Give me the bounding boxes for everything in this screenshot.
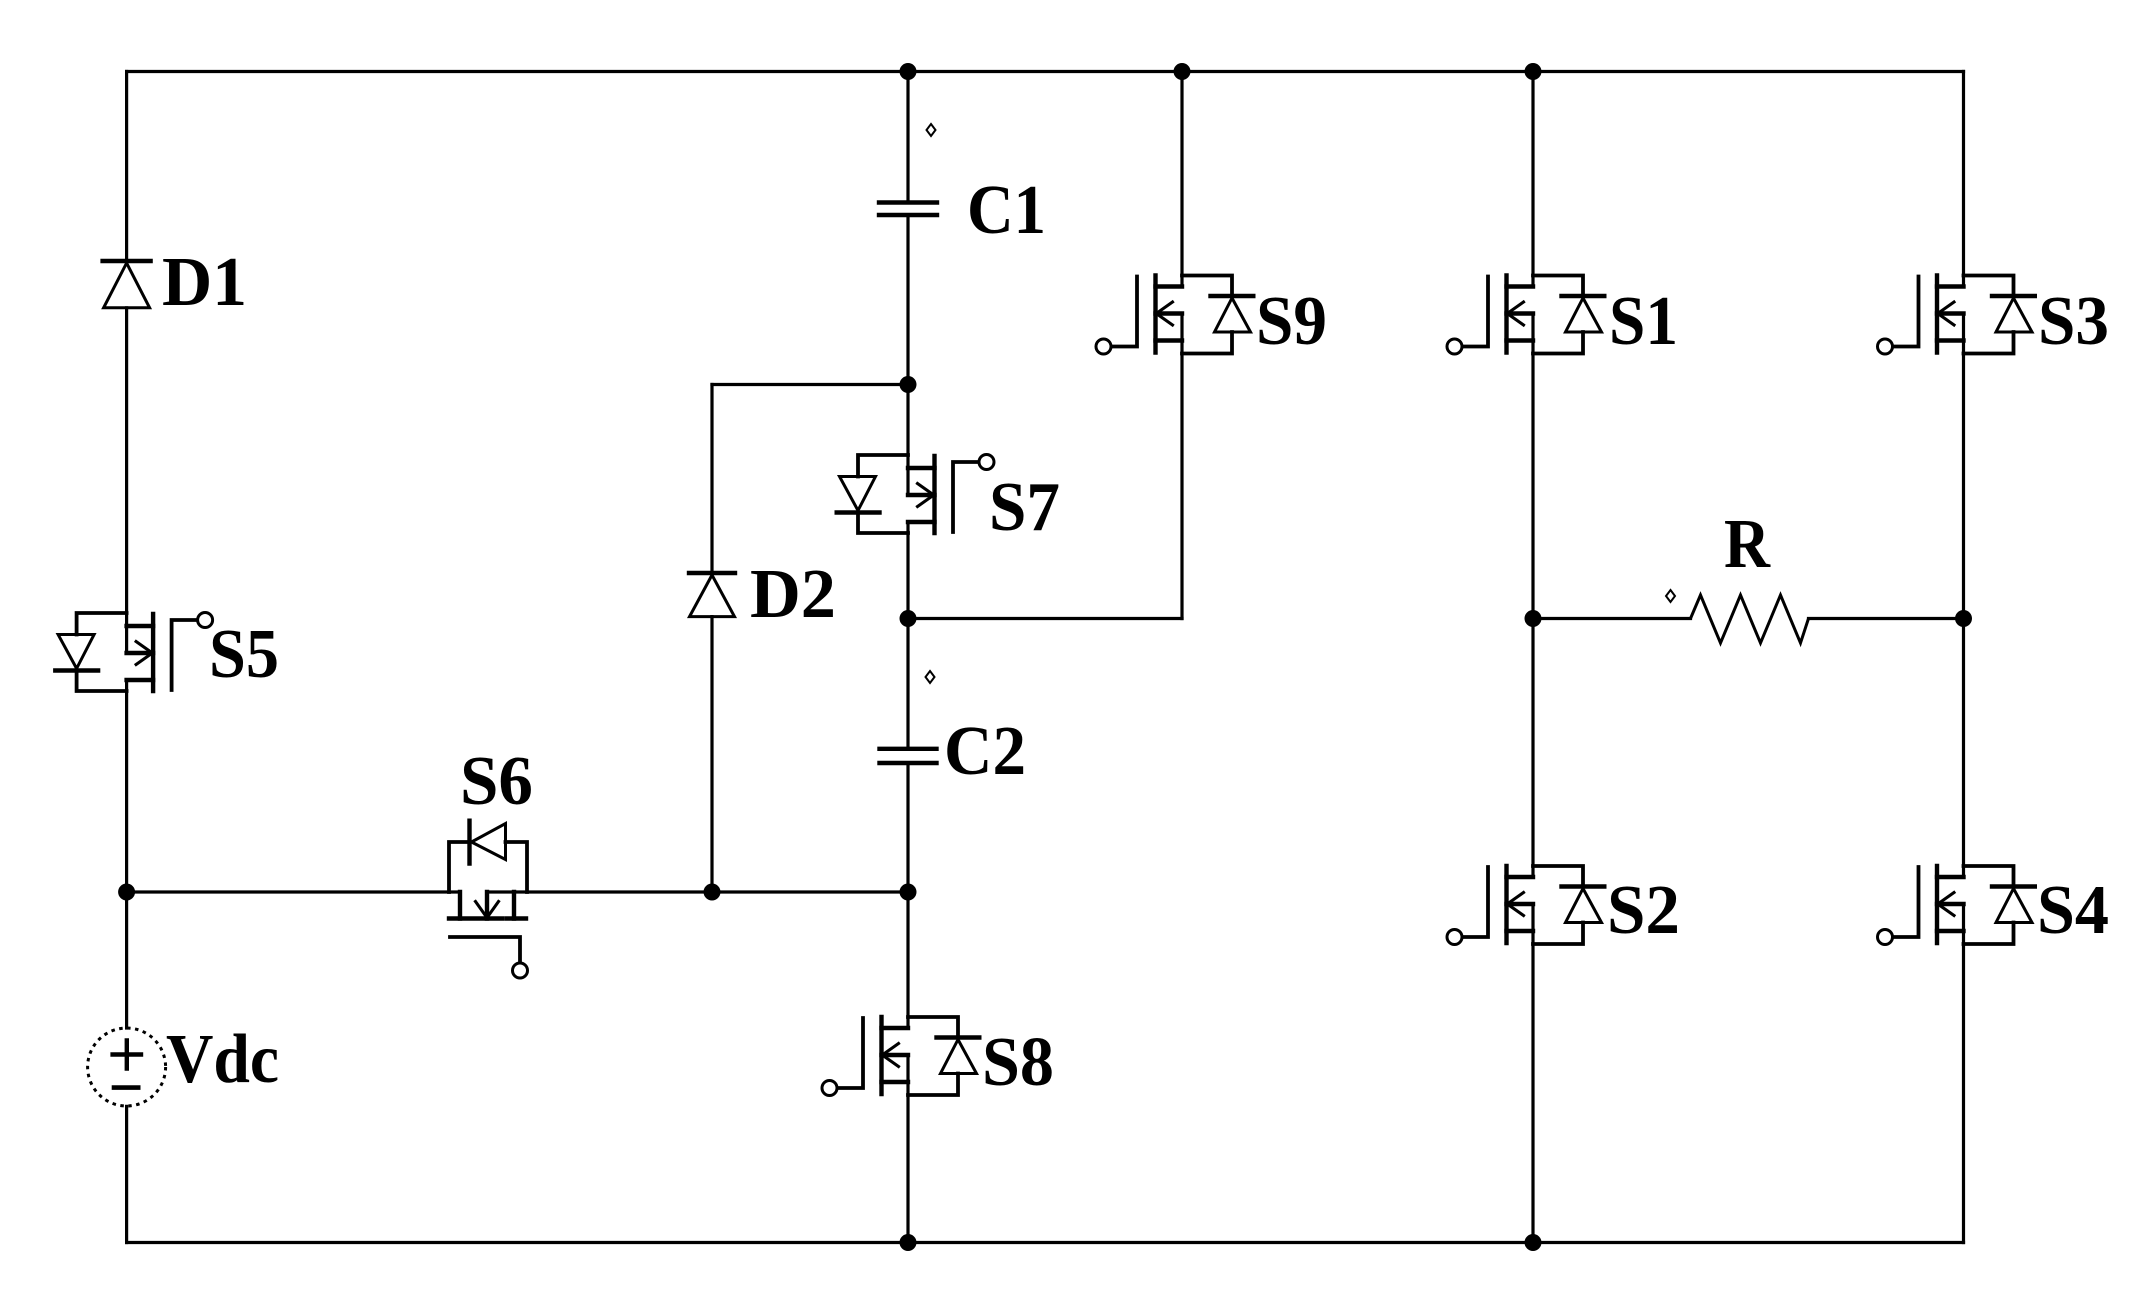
- node top rail at S9 column: [1174, 63, 1191, 80]
- transistor S3: [1878, 276, 2035, 355]
- diode D2: [689, 573, 735, 617]
- transistor S7: [837, 455, 994, 534]
- voltage source Vdc: [88, 1028, 166, 1106]
- node top rail at S1 column: [1525, 63, 1542, 80]
- wire D2 top horizontal: [712, 383, 908, 386]
- svg-text:S2: S2: [1607, 872, 1680, 949]
- node D2 bottom: [704, 884, 721, 901]
- svg-text:S6: S6: [460, 743, 533, 820]
- svg-text:C2: C2: [944, 713, 1026, 790]
- node top rail at C column: [900, 63, 917, 80]
- transistor S6: [449, 821, 528, 978]
- svg-text:Vdc: Vdc: [166, 1021, 279, 1098]
- node C1 bottom / D2 top: [900, 376, 917, 393]
- svg-text:R: R: [1724, 506, 1771, 583]
- transistor S5: [55, 613, 212, 692]
- wire S6 horizontal: [127, 890, 908, 893]
- svg-text:S4: S4: [2037, 872, 2109, 949]
- probe marker C2: [926, 671, 935, 683]
- node H-bridge left output: [1525, 610, 1542, 627]
- transistor S2: [1447, 866, 1604, 945]
- probe marker C1: [927, 124, 936, 136]
- probe marker R: [1666, 590, 1675, 602]
- wire left rail (through D1, S5, Vdc): [125, 72, 128, 1243]
- wire D2 vertical: [710, 385, 713, 893]
- svg-text:S3: S3: [2038, 283, 2109, 360]
- wire S9 branch vertical: [1180, 72, 1183, 619]
- node S6 to C column: [900, 884, 917, 901]
- transistor S9: [1096, 276, 1253, 355]
- wire C1 C2 column (through S7, S8): [906, 72, 909, 1243]
- wire node to S9 horizontal: [908, 617, 1182, 620]
- svg-text:D2: D2: [750, 556, 836, 633]
- node H-bridge right output: [1955, 610, 1972, 627]
- wire S1 S2 column: [1531, 72, 1534, 1243]
- node S7 source / S9 source: [900, 610, 917, 627]
- wire bottom rail: [127, 1241, 1964, 1244]
- svg-text:S1: S1: [1609, 283, 1678, 360]
- wire load R horizontal: [1533, 617, 1691, 620]
- svg-text:S7: S7: [989, 469, 1060, 546]
- node left rail S6 tap: [118, 884, 135, 901]
- wire top rail: [127, 70, 1964, 73]
- wire right rail (through S3, S4): [1962, 72, 1965, 1243]
- svg-text:S9: S9: [1256, 283, 1327, 360]
- svg-text:D1: D1: [162, 244, 247, 321]
- capacitor C2: [880, 749, 937, 763]
- transistor S4: [1878, 866, 2035, 945]
- svg-text:S5: S5: [209, 616, 279, 693]
- node bottom rail at S1 column: [1525, 1234, 1542, 1251]
- svg-text:S8: S8: [982, 1024, 1054, 1101]
- transistor S1: [1447, 276, 1604, 355]
- resistor R: [1691, 595, 1809, 643]
- capacitor C1: [879, 203, 937, 216]
- diode D1: [103, 261, 151, 308]
- svg-text:C1: C1: [967, 172, 1046, 249]
- transistor S8: [822, 1017, 979, 1096]
- node bottom rail at C column: [900, 1234, 917, 1251]
